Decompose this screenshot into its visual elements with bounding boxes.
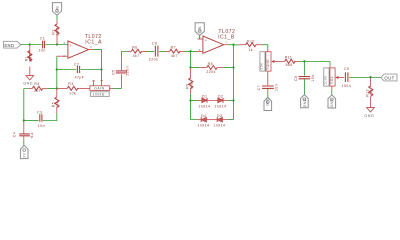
svg-text:100kB: 100kB [93, 93, 105, 97]
svg-text:10k: 10k [69, 91, 76, 95]
svg-text:C4: C4 [12, 132, 16, 137]
svg-text:R7: R7 [171, 45, 176, 49]
svg-text:25k: 25k [260, 63, 264, 70]
svg-text:C6: C6 [152, 41, 157, 45]
svg-text:VB: VB [55, 6, 59, 12]
svg-text:1n914: 1n914 [213, 124, 225, 128]
svg-text:C3: C3 [37, 110, 42, 114]
svg-text:4k7: 4k7 [34, 89, 41, 93]
svg-text:GAIN: GAIN [94, 87, 104, 91]
svg-text:10n: 10n [39, 49, 46, 53]
svg-text:C7: C7 [257, 85, 261, 90]
svg-text:220n: 220n [125, 66, 129, 76]
svg-text:4k7: 4k7 [133, 54, 140, 58]
svg-text:100n: 100n [342, 84, 352, 88]
svg-text:C1: C1 [40, 37, 45, 41]
svg-text:VB: VB [198, 26, 202, 32]
svg-text:220n: 220n [149, 57, 159, 61]
svg-text:R3: R3 [68, 82, 73, 86]
svg-text:GND: GND [23, 82, 33, 86]
svg-text:2M2: 2M2 [29, 54, 33, 62]
svg-text:GND: GND [303, 98, 307, 107]
svg-text:TONE: TONE [266, 59, 270, 70]
svg-text:1M: 1M [370, 89, 374, 95]
svg-text:R6: R6 [132, 45, 137, 49]
svg-text:SND: SND [4, 43, 14, 48]
svg-text:100k: 100k [324, 76, 328, 85]
svg-text:2M2: 2M2 [56, 27, 60, 35]
svg-text:GND: GND [266, 97, 270, 106]
svg-text:1n914: 1n914 [197, 124, 209, 128]
svg-text:VOL: VOL [330, 76, 334, 84]
svg-text:1: 1 [90, 45, 92, 49]
svg-text:R8: R8 [208, 62, 213, 66]
svg-text:10n: 10n [311, 74, 315, 81]
svg-text:D3: D3 [217, 114, 222, 118]
svg-text:D1: D1 [202, 95, 207, 99]
svg-text:7: 7 [225, 40, 227, 44]
svg-text:9V: 9V [23, 152, 27, 157]
svg-text:10n: 10n [38, 124, 45, 128]
svg-text:OUT: OUT [384, 75, 394, 80]
svg-text:GND: GND [330, 99, 334, 108]
svg-text:4k7: 4k7 [171, 54, 178, 58]
svg-text:10k: 10k [56, 101, 60, 108]
svg-text:6k8: 6k8 [190, 82, 194, 89]
svg-text:1n914: 1n914 [214, 104, 226, 108]
svg-text:R11: R11 [285, 55, 293, 59]
svg-text:D2: D2 [218, 95, 223, 99]
svg-text:C2: C2 [74, 62, 79, 66]
svg-text:220k: 220k [206, 70, 215, 74]
svg-text:10n: 10n [274, 84, 278, 91]
svg-text:GND: GND [364, 114, 374, 118]
svg-text:D4: D4 [201, 114, 206, 118]
svg-text:IC1_A: IC1_A [85, 39, 102, 45]
svg-text:C9: C9 [344, 67, 349, 71]
svg-text:C5: C5 [112, 69, 116, 74]
svg-text:3: 3 [63, 41, 65, 45]
svg-text:6k8: 6k8 [286, 63, 293, 67]
svg-text:+: + [31, 135, 34, 140]
svg-text:47pF: 47pF [75, 76, 85, 80]
svg-text:C8: C8 [294, 76, 298, 81]
svg-text:1k: 1k [248, 48, 253, 52]
svg-text:1n914: 1n914 [198, 104, 210, 108]
svg-text:R4: R4 [34, 82, 39, 86]
svg-text:R10: R10 [247, 40, 255, 44]
